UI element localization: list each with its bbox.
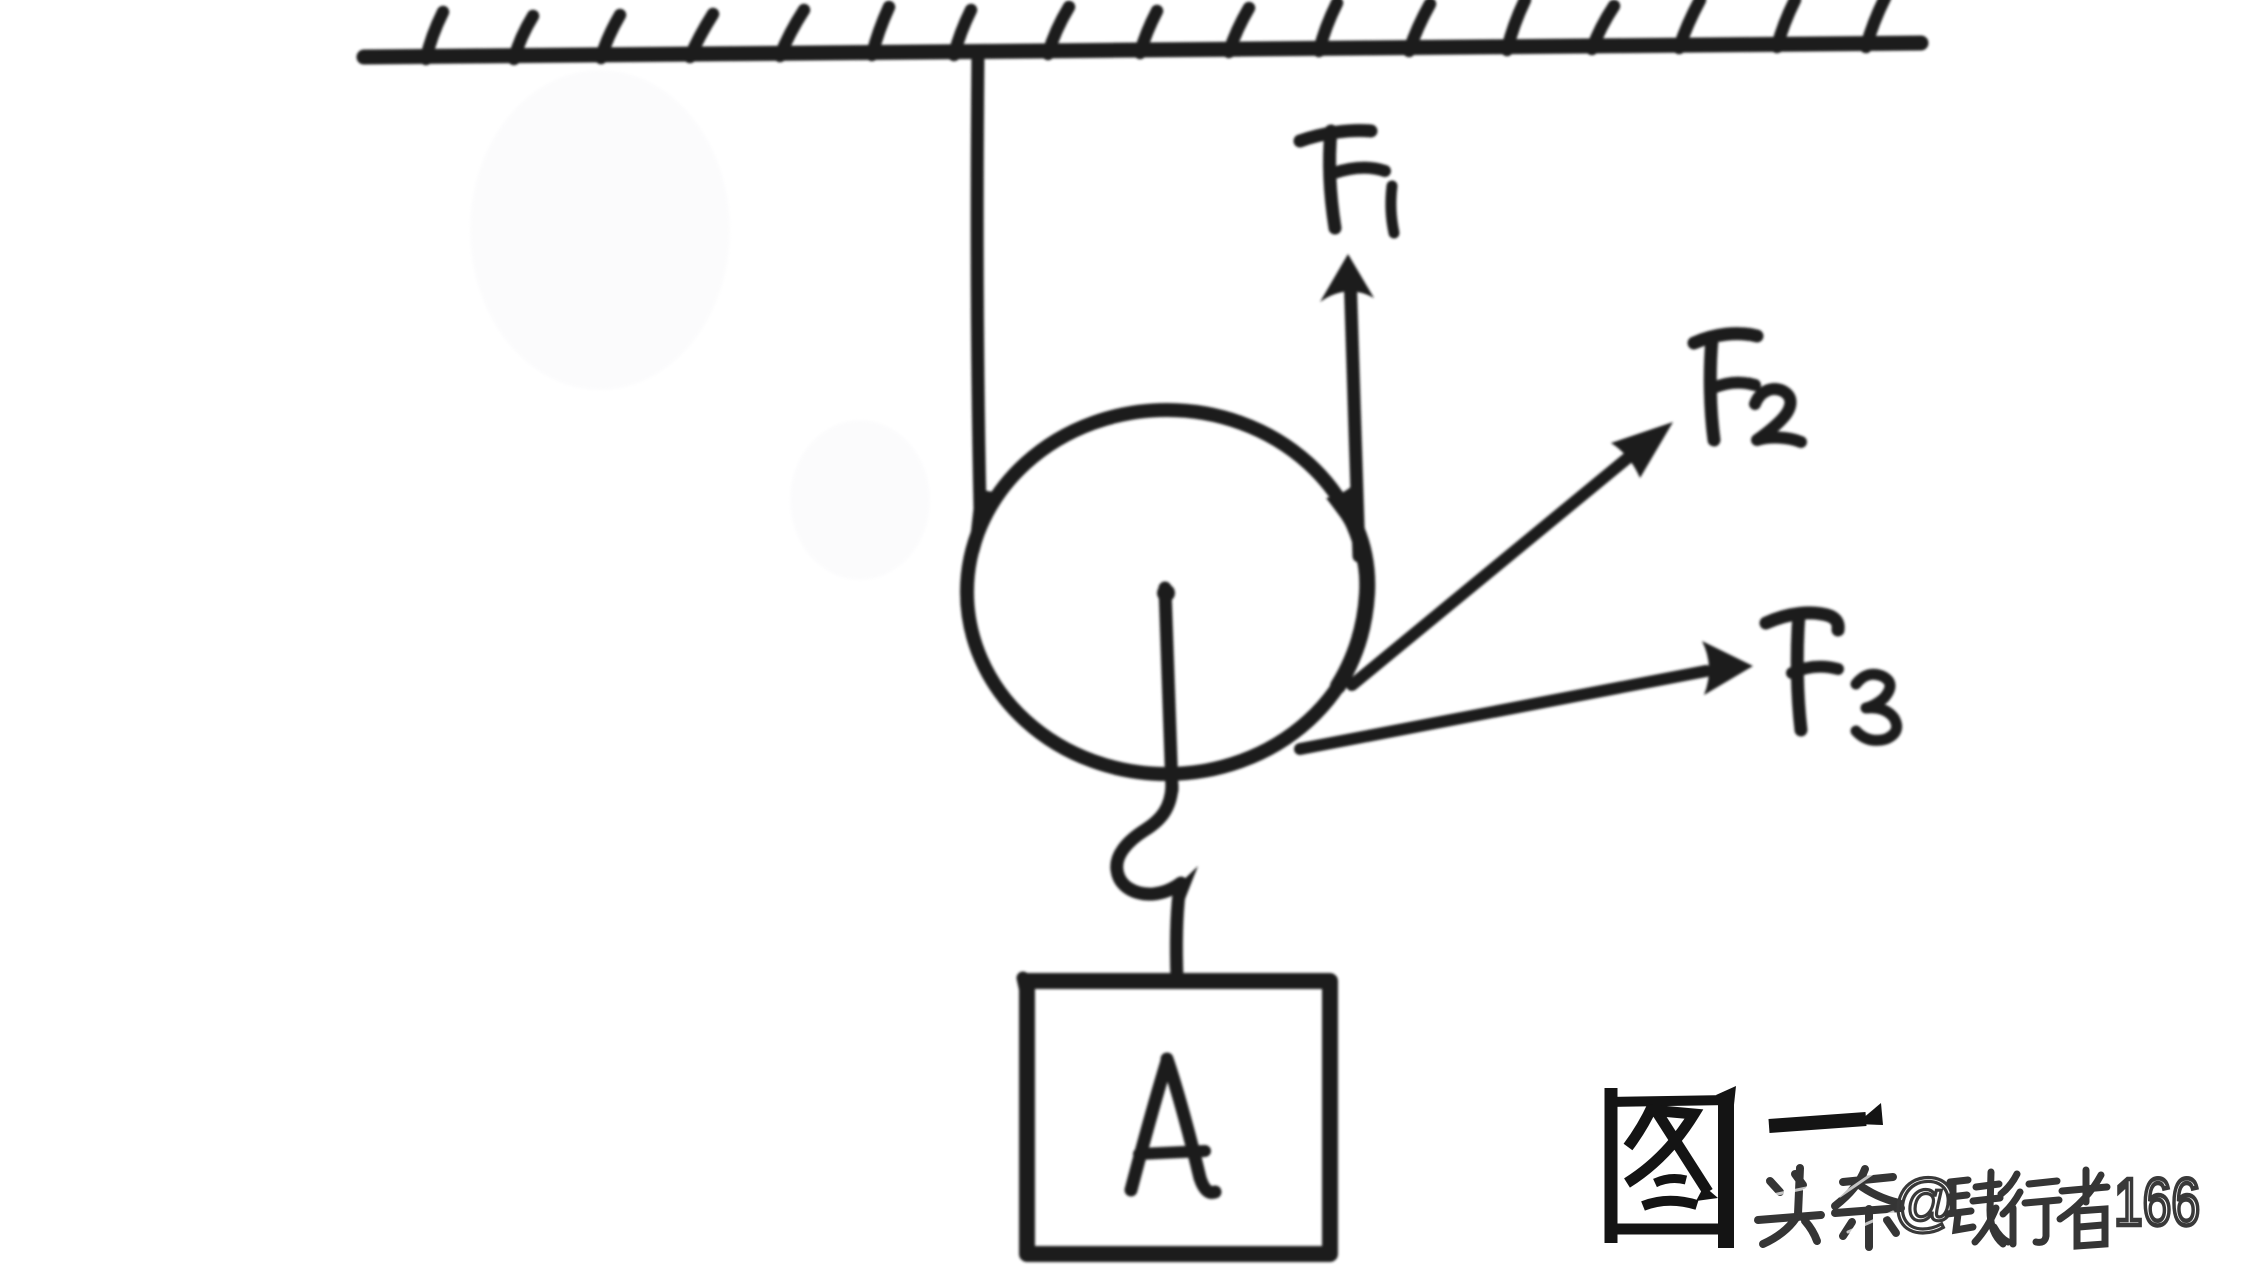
letter A right leg <box>1167 1059 1215 1192</box>
F2 arrowhead <box>1611 422 1673 478</box>
figure label yi (horizontal stroke with serif) <box>1769 1103 1883 1126</box>
paper smudge <box>470 70 930 580</box>
F3 label subscript 3 <box>1856 674 1897 740</box>
watermark char tiao <box>1835 1169 1901 1247</box>
letter A left leg <box>1131 1061 1167 1190</box>
block top-left overshoot <box>1023 978 1027 996</box>
F1 label subscript 1 <box>1391 186 1394 233</box>
F2 arrow line <box>1352 452 1635 685</box>
ceiling hatch marks <box>426 0 1885 59</box>
svg-text:166: 166 <box>2114 1165 2200 1240</box>
figure label tu (box with dong inside) <box>1606 1086 1736 1248</box>
watermark char tou <box>1758 1168 1821 1244</box>
watermark char zhe <box>2060 1170 2107 1246</box>
F1 stem-pulley junction wedge <box>1326 486 1363 560</box>
watermark char jian <box>1947 1172 2008 1244</box>
rope from hook to block <box>1176 894 1179 981</box>
pulley rim right side double-ink <box>1338 528 1367 686</box>
F3 arrow line <box>1300 671 1706 749</box>
rope-pulley junction wedge <box>970 487 1004 553</box>
axle top blob <box>1157 584 1175 602</box>
block A box <box>1027 981 1330 1254</box>
svg-text:@: @ <box>1893 1166 1958 1238</box>
F3 arrowhead <box>1702 641 1753 695</box>
F1 arrowhead <box>1320 254 1374 302</box>
ceiling line <box>364 43 1921 57</box>
F1 label F <box>1300 130 1371 141</box>
watermark char xing <box>2001 1174 2059 1244</box>
F3 label F <box>1766 613 1838 630</box>
hook <box>1117 786 1181 894</box>
F2 label F <box>1694 334 1757 343</box>
pulley axle <box>1165 588 1172 790</box>
watermark: toutiao @ jianxingzhe166 <box>1758 1165 2200 1247</box>
letter A crossbar <box>1139 1151 1205 1154</box>
rope from ceiling to pulley <box>977 52 980 508</box>
hook tip wedge <box>1172 866 1198 899</box>
F1 arrow stem <box>1350 272 1359 556</box>
F2 label subscript 2 <box>1755 389 1801 442</box>
pulley wheel <box>967 410 1367 774</box>
watermark white slashes <box>1768 1174 1893 1232</box>
